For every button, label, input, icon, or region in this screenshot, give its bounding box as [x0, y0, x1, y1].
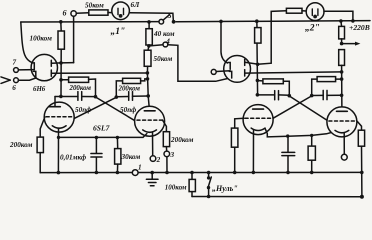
wire rail drop to T2 upper cathode — [221, 22, 227, 64]
svg-text:100ком: 100ком — [165, 184, 187, 192]
wire output arrow — [342, 43, 357, 45]
node bus-R2grid cross — [360, 171, 364, 175]
wire R2 grid lead — [357, 121, 362, 131]
wire R1 cathode — [252, 131, 254, 173]
node rail-lamp2 — [351, 19, 355, 23]
resistor 200ком (L2 grid) — [163, 132, 169, 147]
node ccL-left — [59, 78, 63, 82]
wire L2 grid lead — [163, 120, 167, 132]
triode L2 (6SL7 half) — [135, 106, 165, 136]
wire top-plate link tube2 to lamp2 chain — [258, 11, 287, 65]
wire supply right FF — [245, 72, 342, 73]
terminal 2 — [150, 156, 156, 162]
wire cross-coupling L2-plate to L1-grid — [74, 97, 116, 118]
node r30k-top — [116, 136, 119, 139]
node supply-right — [340, 70, 344, 74]
svg-text:6Л: 6Л — [131, 0, 141, 9]
resistor 50ком (lamp1) — [89, 10, 108, 15]
node bus-30kR — [310, 171, 314, 175]
node bus-cathodeL1 — [57, 171, 61, 175]
node bus-ground — [150, 171, 154, 175]
node coupling-R-left — [288, 94, 292, 98]
svg-text:3: 3 — [170, 151, 175, 159]
terminal 6 (input) — [14, 78, 19, 83]
resistor (right FF, 30k mirror) — [311, 135, 313, 146]
node divider-terminal4 — [147, 44, 151, 48]
resistor 100ком (plate load T2/R1) — [256, 21, 258, 27]
svg-text:30ком: 30ком — [121, 153, 141, 161]
svg-text:40 ком: 40 ком — [153, 30, 175, 38]
resistor 200ком (L1 grid) — [37, 137, 43, 153]
terminal 1 — [132, 170, 138, 176]
node capwire-R2 — [340, 94, 344, 98]
wire cathode line left FF — [59, 134, 147, 138]
node r30kR-top — [310, 134, 313, 137]
ground — [151, 173, 153, 179]
terminal 4 — [151, 44, 163, 47]
svg-text:„1": „1" — [111, 27, 126, 37]
svg-text:200ком: 200ком — [69, 85, 92, 92]
resistor 200ком (cc right, plate R2) — [312, 79, 317, 96]
node capwire-R1 — [256, 93, 260, 97]
tube 6Н6 (T2 double diode) — [224, 56, 251, 83]
resistor 50ком (divider) — [147, 46, 150, 50]
svg-text:200ком: 200ком — [170, 136, 193, 144]
node resetbus-corner — [360, 195, 364, 199]
svg-text:50пф: 50пф — [75, 106, 91, 114]
node output tap — [340, 42, 344, 46]
wire cathode line right FF — [265, 128, 332, 137]
node bus-cap001R — [286, 171, 290, 175]
node rail-resA — [339, 19, 343, 23]
terminal 7 — [14, 68, 19, 73]
svg-text:6Н6: 6Н6 — [33, 86, 46, 93]
wire lamp1 to switch corner — [129, 13, 173, 22]
node bus-terminal3 — [165, 171, 169, 175]
svg-text:„Нуль": „Нуль" — [212, 184, 238, 193]
svg-text:200ком: 200ком — [9, 141, 32, 149]
resistor chain rail A — [340, 21, 343, 26]
node bus-cap001 — [95, 171, 99, 175]
triode R2 (6SL7 half) — [327, 107, 357, 137]
resistor 200ком (R1 grid) — [231, 128, 238, 147]
wire terminal6 drop to diode plate node — [73, 16, 75, 62]
node cathode-L1 — [57, 136, 60, 139]
wire terminal4 to tube2 cathode — [168, 45, 230, 82]
node bus-100k — [190, 171, 194, 175]
capacitor 0,01мкф — [95, 138, 97, 154]
wire reset bus — [192, 196, 362, 198]
capacitor 50пф (left) — [55, 96, 78, 98]
resistor chain rail B — [339, 50, 345, 66]
wire top-plate link T1 — [61, 62, 74, 64]
node rail-100k-1 — [59, 20, 63, 24]
wire R2 cathode to terminal — [343, 133, 345, 154]
node bus-R1grid — [233, 171, 237, 175]
node ccL-right — [146, 77, 150, 81]
terminal 3 — [164, 151, 170, 157]
capacitor (right FF left) — [257, 94, 274, 96]
svg-text:100ком: 100ком — [30, 35, 52, 43]
svg-text:50ком: 50ком — [85, 2, 104, 10]
node coupling-L-right — [115, 95, 119, 99]
neon lamp 6Л „1" — [112, 2, 130, 20]
svg-text:+220В: +220В — [349, 23, 370, 32]
switch contact 5 — [159, 19, 164, 24]
node bus-R1cathode — [252, 171, 256, 175]
terminal (R2 cathode) — [341, 154, 347, 160]
node capwire-L2 — [146, 94, 150, 98]
svg-text:„2": „2" — [305, 24, 320, 34]
node coupling-L-left — [94, 95, 98, 99]
svg-text:50ком: 50ком — [154, 55, 173, 63]
resistor 100ком (reset bleed) — [191, 173, 193, 180]
wire lamp2 to rail — [324, 11, 353, 21]
terminal (tube2 cathode) — [211, 69, 216, 74]
capacitor 50пф (right) — [116, 96, 128, 98]
triode R1 (6SL7 half) — [243, 105, 273, 135]
resistor 200ком (R2 grid) — [358, 130, 364, 146]
wire terminal6 to lamp resistor — [76, 12, 89, 15]
svg-text:6: 6 — [63, 9, 67, 18]
wire rail drop to T1 upper cathode — [21, 22, 32, 63]
wire ground bus — [40, 171, 362, 173]
node plate-top-T1 — [59, 61, 63, 65]
svg-text:7: 7 — [13, 59, 17, 67]
wire terminal6 to T1 lower cathode — [18, 78, 35, 80]
triode L1 (6SL7 half) — [44, 102, 74, 132]
wire L2 cathode to terminal 2 — [152, 132, 154, 156]
wire cross-coupling L1-plate to L2-grid — [96, 97, 135, 121]
node bus-30k — [116, 171, 120, 175]
svg-text:6SL7: 6SL7 — [93, 124, 111, 133]
svg-text:0,01мкф: 0,01мкф — [60, 153, 86, 161]
node rail-40k — [147, 20, 151, 24]
svg-text:6: 6 — [12, 84, 16, 92]
node coupling-R-right — [310, 94, 314, 98]
neon lamp „2" — [306, 3, 324, 21]
node rail-switch — [172, 20, 176, 24]
wire R1 grid lead — [235, 118, 244, 128]
node cap001-top — [95, 136, 98, 139]
resistor 200ком (cc left, plate R1) — [257, 80, 263, 82]
node capwire-L1 — [59, 95, 63, 99]
resistor 30ком — [116, 138, 118, 149]
tube 6Н6 (T1 double diode) — [31, 54, 57, 80]
resistor 200ком (cc left, plate L1) — [61, 79, 69, 81]
resistor 200ком (cc right, plate L2) — [116, 81, 122, 97]
wire divider to L2 plate column — [147, 66, 149, 110]
wire cross-coupling R2-plate to R1-grid — [273, 96, 312, 118]
capacitor (right FF right) — [312, 94, 324, 96]
svg-text:5: 5 — [168, 11, 172, 20]
resistor 100ком (plate load T1/L1) — [60, 22, 62, 31]
node rail-left-curve — [219, 20, 223, 24]
wire supply left FF — [51, 72, 147, 74]
resistor 50ком (lamp2) — [286, 8, 302, 13]
svg-text:2: 2 — [156, 156, 161, 164]
wire cross-coupling R1-plate to R2-grid — [289, 96, 328, 121]
svg-text:1: 1 — [138, 164, 142, 172]
node cap001R-top — [286, 134, 289, 137]
node ccR-right-end — [340, 77, 344, 81]
wire L1 grid lead — [40, 117, 45, 137]
terminal 6 (top) — [71, 11, 76, 16]
node rail-100k-2 — [255, 19, 259, 23]
node supply-left — [146, 71, 150, 75]
node plate-top-T2 — [256, 63, 260, 67]
node resetbus-switch — [207, 195, 211, 199]
switch „Нуль" (reset button) — [208, 173, 210, 177]
wire +220V top rail — [21, 21, 159, 23]
input arrow — [1, 77, 10, 80]
resistor 40ком — [148, 22, 150, 29]
wire L1 cathode — [57, 128, 59, 172]
node ccR-left — [256, 79, 260, 83]
capacitor (right FF, 0,01 mirror) — [287, 136, 289, 152]
